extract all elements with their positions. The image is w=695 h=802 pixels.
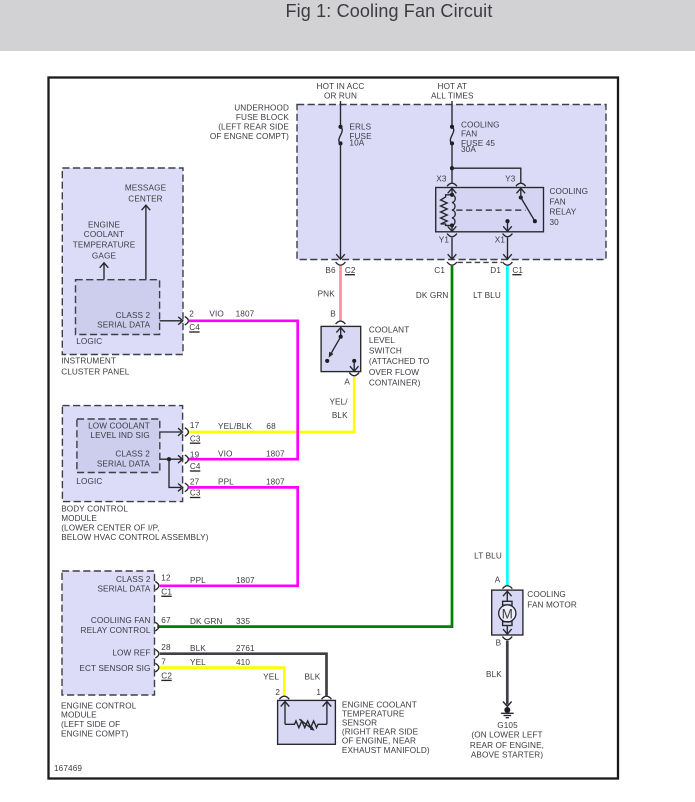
svg-text:ENGINE: ENGINE xyxy=(88,220,121,229)
svg-text:LOW COOLANT: LOW COOLANT xyxy=(88,422,150,431)
label message center xyxy=(125,183,167,203)
svg-text:BLK: BLK xyxy=(332,411,348,420)
svg-text:2: 2 xyxy=(275,688,280,697)
terminal X3 connector xyxy=(447,183,457,186)
svg-text:ECT SENSOR SIG: ECT SENSOR SIG xyxy=(79,664,150,673)
svg-text:C1: C1 xyxy=(512,266,523,275)
svg-text:M: M xyxy=(502,606,513,621)
svg-text:12: 12 xyxy=(161,574,171,583)
label engine coolant temperature gage xyxy=(73,220,136,260)
svg-text:C2: C2 xyxy=(345,266,356,275)
svg-text:CENTER: CENTER xyxy=(128,194,162,203)
label class 2 serial data (BCM) xyxy=(97,450,150,469)
label low coolant level ind sig xyxy=(88,422,150,440)
svg-text:MESSAGE: MESSAGE xyxy=(125,183,167,192)
dashed connector bridge C1-D1 xyxy=(458,261,503,263)
svg-text:1: 1 xyxy=(316,688,321,697)
wire YEL ECM pin 7 to sensor pin 2 xyxy=(160,668,284,696)
svg-text:A: A xyxy=(344,378,350,387)
relay box COOLING FAN RELAY 30 xyxy=(436,188,544,232)
svg-text:EXHAUST MANIFOLD): EXHAUST MANIFOLD) xyxy=(342,746,430,755)
svg-text:LT BLU: LT BLU xyxy=(473,291,501,300)
wire logic to temperature gage xyxy=(103,263,105,280)
label body control module xyxy=(61,504,209,542)
svg-text:BLK: BLK xyxy=(190,644,206,653)
engine control module box xyxy=(62,571,155,695)
svg-text:(ATTACHED TO: (ATTACHED TO xyxy=(369,357,429,366)
svg-text:COOLIING FAN: COOLIING FAN xyxy=(91,616,151,625)
svg-text:CLASS 2: CLASS 2 xyxy=(116,575,151,584)
fuse ERLS FUSE 10A xyxy=(338,122,372,147)
svg-text:DK GRN: DK GRN xyxy=(416,291,449,300)
logic inner box (BCM) xyxy=(77,419,160,473)
terminal Y3 connector xyxy=(516,183,526,186)
wire PPL BCM pin 27 to ECM pin 12 xyxy=(160,487,298,585)
svg-text:67: 67 xyxy=(161,616,171,625)
wire BLK ECM pin 28 to sensor pin 1 xyxy=(160,654,327,696)
svg-text:VIO: VIO xyxy=(209,310,223,319)
svg-text:BLK: BLK xyxy=(304,672,320,681)
svg-text:TEMPERATURE: TEMPERATURE xyxy=(342,709,405,718)
switch terminal A internal xyxy=(350,359,359,371)
ECM pin 67 connector xyxy=(155,622,159,631)
svg-text:FAN: FAN xyxy=(550,197,566,206)
wire hot-at-all-times feed to cooling fan fuse xyxy=(451,101,453,127)
svg-text:19: 19 xyxy=(190,451,200,460)
svg-text:CLUSTER PANEL: CLUSTER PANEL xyxy=(61,367,130,376)
svg-text:B: B xyxy=(496,638,502,647)
svg-text:A: A xyxy=(495,575,501,584)
wire ERLS fuse to connector B6 xyxy=(340,143,342,258)
svg-text:HOT AT: HOT AT xyxy=(438,82,468,91)
wire DK GRN C1 to ECM pin 67 xyxy=(157,266,452,627)
connector B6 / C2 xyxy=(336,262,346,265)
fan motor terminal B connector xyxy=(502,637,512,640)
switch blade inside coolant level switch xyxy=(325,327,345,363)
relay coil xyxy=(441,188,457,231)
wire logic to message center xyxy=(145,205,147,280)
svg-text:HOT IN ACC: HOT IN ACC xyxy=(317,82,365,91)
border frame xyxy=(49,78,619,779)
svg-text:PPL: PPL xyxy=(190,576,206,585)
svg-text:LEVEL IND SIG: LEVEL IND SIG xyxy=(90,431,150,440)
svg-text:C4: C4 xyxy=(189,323,200,332)
svg-text:FAN: FAN xyxy=(461,130,477,139)
svg-text:1807: 1807 xyxy=(236,310,255,319)
svg-text:2: 2 xyxy=(189,309,194,318)
svg-text:YEL/BLK: YEL/BLK xyxy=(218,422,252,431)
node HOT IN ACC OR RUN xyxy=(317,82,365,100)
terminal B connector xyxy=(336,321,346,324)
svg-text:30: 30 xyxy=(550,218,560,227)
svg-text:REAR OF ENGINE,: REAR OF ENGINE, xyxy=(470,741,544,750)
svg-text:335: 335 xyxy=(236,617,250,626)
body control module box xyxy=(62,406,182,502)
svg-text:TEMPERATURE: TEMPERATURE xyxy=(73,241,136,250)
label G105 location xyxy=(470,721,544,760)
svg-text:ERLS: ERLS xyxy=(349,122,371,131)
cooling fan motor box xyxy=(492,590,523,635)
svg-text:(RIGHT REAR SIDE: (RIGHT REAR SIDE xyxy=(342,728,419,737)
svg-text:BODY CONTROL: BODY CONTROL xyxy=(61,504,128,513)
svg-text:C1: C1 xyxy=(434,266,445,275)
wire cooling fan fuse to relay terminal X3 xyxy=(451,143,453,182)
title header bar xyxy=(0,0,695,51)
fuse COOLING FAN FUSE 45 30A xyxy=(450,120,500,154)
svg-text:30A: 30A xyxy=(461,145,476,154)
svg-text:1807: 1807 xyxy=(266,449,285,458)
svg-text:17: 17 xyxy=(190,421,200,430)
svg-text:CLASS 2: CLASS 2 xyxy=(116,311,151,320)
ECM pin 12 connector xyxy=(155,582,159,591)
svg-text:PNK: PNK xyxy=(318,289,336,298)
svg-text:C4: C4 xyxy=(190,462,201,471)
svg-text:LOGIC: LOGIC xyxy=(76,477,102,486)
instrument cluster panel module box xyxy=(62,168,183,355)
svg-text:68: 68 xyxy=(266,422,276,431)
fan motor terminal A connector xyxy=(503,586,513,589)
label instrument cluster panel xyxy=(61,356,130,376)
svg-text:BLK: BLK xyxy=(486,670,502,679)
wire branch junction to relay terminal Y3 xyxy=(452,168,521,183)
svg-text:MODULE: MODULE xyxy=(61,514,97,523)
connector C1 (dk grn) xyxy=(447,262,457,265)
wire BLK fan motor to ground G105 xyxy=(506,641,509,705)
wire branch to pin 27 xyxy=(169,459,181,487)
IC pin 2 connector xyxy=(160,320,182,322)
svg-text:D1: D1 xyxy=(490,266,501,275)
svg-text:CLASS 2: CLASS 2 xyxy=(115,450,150,459)
svg-text:10A: 10A xyxy=(349,138,364,147)
svg-text:YEL/: YEL/ xyxy=(329,398,348,407)
relay internal dashed link coil-to-switch xyxy=(456,209,525,211)
svg-text:VIO: VIO xyxy=(218,449,232,458)
label coolant level switch xyxy=(369,325,429,387)
svg-text:OR RUN: OR RUN xyxy=(324,91,357,100)
wire YEL/BLK switch A to BCM pin 17 xyxy=(188,377,354,432)
svg-text:OF ENGINE, NEAR: OF ENGINE, NEAR xyxy=(342,737,416,746)
svg-text:SENSOR: SENSOR xyxy=(342,719,377,728)
wire PNK from B6 to switch terminal B xyxy=(339,266,342,321)
wire X1 to fuse block edge xyxy=(507,238,509,259)
label engine control module xyxy=(61,701,137,738)
ECM pin 28 connector xyxy=(155,649,159,658)
ground G105 symbol xyxy=(501,702,514,718)
svg-text:LOGIC: LOGIC xyxy=(76,337,102,346)
svg-text:LOW REF: LOW REF xyxy=(112,649,150,658)
label class 2 serial data (ECM) xyxy=(97,575,150,594)
motor symbol M xyxy=(499,591,516,634)
connector D1 / C1 (lt blu) xyxy=(503,262,513,265)
svg-text:X1: X1 xyxy=(495,236,506,245)
label cooliing fan relay control xyxy=(81,616,151,635)
svg-text:ABOVE STARTER): ABOVE STARTER) xyxy=(471,750,544,759)
svg-text:Fig 1: Cooling Fan Circuit: Fig 1: Cooling Fan Circuit xyxy=(286,1,493,21)
terminal Y1 connector xyxy=(447,234,457,237)
engine coolant temperature sensor box xyxy=(278,700,336,744)
BCM pin 19 connector xyxy=(160,458,181,460)
junction dot BCM serial data branch xyxy=(167,457,171,461)
ECM pin 7 connector xyxy=(155,663,159,672)
svg-text:INSTRUMENT: INSTRUMENT xyxy=(61,356,116,365)
svg-text:MODULE: MODULE xyxy=(61,711,97,720)
wire hot-in-acc feed to ERLS fuse xyxy=(340,101,342,127)
terminal X1 connector xyxy=(503,234,513,237)
svg-text:GAGE: GAGE xyxy=(92,252,117,261)
svg-text:COOLING: COOLING xyxy=(527,590,566,599)
svg-text:COOLANT: COOLANT xyxy=(84,230,124,239)
relay switch (Y3 pivot to open contact) xyxy=(517,188,537,223)
svg-text:B6: B6 xyxy=(325,266,336,275)
svg-text:C3: C3 xyxy=(190,489,201,498)
svg-text:Y3: Y3 xyxy=(505,174,516,183)
svg-text:PPL: PPL xyxy=(218,478,234,487)
terminal A connector xyxy=(349,373,359,376)
wire VIO IC pin 2 to BCM pin 19 xyxy=(188,321,297,459)
svg-text:DK GRN: DK GRN xyxy=(190,617,223,626)
svg-text:RELAY CONTROL: RELAY CONTROL xyxy=(81,626,151,635)
coolant level switch box xyxy=(321,326,361,371)
thermistor inside sensor xyxy=(281,701,332,730)
svg-text:C3: C3 xyxy=(190,434,201,443)
svg-text:C2: C2 xyxy=(161,672,172,681)
underhood fuse block (dashed module box) xyxy=(297,105,606,260)
svg-text:(LOWER CENTER OF I/P,: (LOWER CENTER OF I/P, xyxy=(61,523,159,532)
label YEL/BLK vertical run xyxy=(329,398,348,420)
svg-text:B: B xyxy=(330,309,336,318)
svg-text:CONTAINER): CONTAINER) xyxy=(369,378,421,387)
label cooling fan relay 30 xyxy=(550,187,589,227)
svg-text:LT BLU: LT BLU xyxy=(474,552,502,561)
svg-text:SERIAL DATA: SERIAL DATA xyxy=(97,585,150,594)
svg-text:RELAY: RELAY xyxy=(550,208,577,217)
svg-text:2761: 2761 xyxy=(236,644,255,653)
svg-text:410: 410 xyxy=(236,658,250,667)
label engine coolant temperature sensor xyxy=(342,700,430,755)
svg-text:SERIAL DATA: SERIAL DATA xyxy=(97,320,150,329)
label class 2 serial data (IC) xyxy=(97,311,150,330)
svg-text:G105: G105 xyxy=(497,721,518,730)
svg-text:27: 27 xyxy=(190,477,200,486)
svg-text:ALL TIMES: ALL TIMES xyxy=(431,91,474,100)
svg-text:COOLANT: COOLANT xyxy=(369,325,409,334)
label cooling fan motor xyxy=(527,590,577,610)
junction node above relay xyxy=(450,166,454,170)
svg-text:SWITCH: SWITCH xyxy=(369,347,402,356)
relay terminal X1 internal xyxy=(503,219,512,231)
logic inner box (IC) xyxy=(76,280,160,335)
svg-text:YEL: YEL xyxy=(263,672,279,681)
wire LT BLU D1 to fan motor terminal A xyxy=(506,266,509,585)
svg-text:LEVEL: LEVEL xyxy=(369,336,395,345)
label underhood fuse block xyxy=(210,104,290,141)
svg-text:ENGINE COMPT): ENGINE COMPT) xyxy=(61,730,129,739)
sensor pin 1 connector xyxy=(322,696,332,699)
svg-text:7: 7 xyxy=(161,657,166,666)
node HOT AT ALL TIMES xyxy=(431,82,474,100)
svg-text:28: 28 xyxy=(161,643,171,652)
svg-text:(LEFT REAR SIDE: (LEFT REAR SIDE xyxy=(218,123,289,132)
BCM pin 17 connector xyxy=(160,431,181,433)
svg-text:COOLING: COOLING xyxy=(550,187,589,196)
svg-text:COOLING: COOLING xyxy=(461,120,500,129)
svg-text:X3: X3 xyxy=(436,174,447,183)
svg-text:(ON LOWER LEFT: (ON LOWER LEFT xyxy=(471,731,542,740)
svg-text:ENGINE COOLANT: ENGINE COOLANT xyxy=(342,700,417,709)
svg-text:C1: C1 xyxy=(161,588,172,597)
svg-text:167469: 167469 xyxy=(54,764,82,773)
svg-text:OVER FLOW: OVER FLOW xyxy=(369,368,419,377)
svg-text:YEL: YEL xyxy=(190,658,206,667)
svg-text:UNDERHOOD: UNDERHOOD xyxy=(234,104,289,113)
svg-text:FUSE BLOCK: FUSE BLOCK xyxy=(236,113,289,122)
svg-text:1807: 1807 xyxy=(266,478,285,487)
svg-text:Y1: Y1 xyxy=(439,236,450,245)
svg-text:1807: 1807 xyxy=(236,576,255,585)
wire Y1 to fuse block edge xyxy=(451,238,453,259)
svg-text:OF ENGNE COMPT): OF ENGNE COMPT) xyxy=(210,132,289,141)
svg-text:SERIAL DATA: SERIAL DATA xyxy=(97,460,150,469)
svg-text:FAN MOTOR: FAN MOTOR xyxy=(527,601,577,610)
sensor pin 2 connector xyxy=(279,696,289,699)
svg-text:BELOW HVAC CONTROL ASSEMBLY): BELOW HVAC CONTROL ASSEMBLY) xyxy=(61,533,209,542)
svg-text:(LEFT SIDE OF: (LEFT SIDE OF xyxy=(61,720,120,729)
svg-text:ENGINE CONTROL: ENGINE CONTROL xyxy=(61,701,137,710)
